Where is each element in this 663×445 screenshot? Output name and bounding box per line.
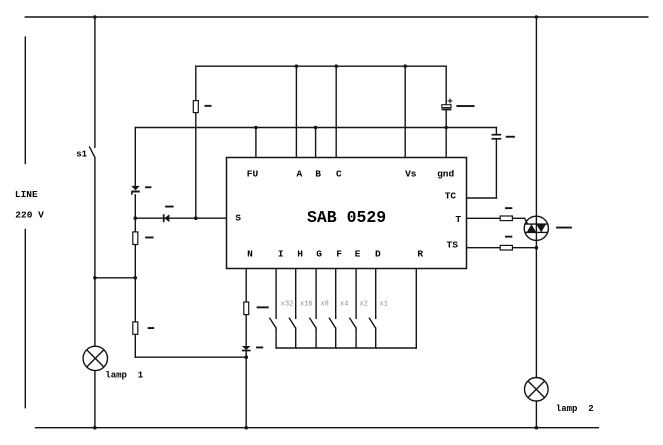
wire gnd column above capacitor C1 (445, 66, 447, 104)
svg-text:D: D (375, 249, 381, 260)
wire below switch x1 (375, 328, 377, 348)
wire below switch x16 (295, 328, 297, 348)
wire middle column x135 below resistor R2 (134, 245, 136, 322)
wire below switch x8 (315, 328, 317, 348)
triac Q1 circle (524, 216, 548, 240)
triac Q1 triangles (527, 224, 546, 232)
svg-text:lamp 1: lamp 1 (105, 371, 143, 381)
value dash of R2 (145, 237, 153, 239)
svg-text:C: C (336, 168, 342, 179)
wire R1 bottom down to S line (195, 113, 197, 219)
resistor R2 (133, 232, 138, 245)
wire N column between R4 and diode D3 (245, 315, 247, 346)
resistor R4 (244, 302, 249, 315)
node bottom rail left column (93, 426, 97, 430)
switch s1 blade (90, 147, 95, 157)
wire below switch x4 (335, 328, 337, 348)
pin G column (315, 269, 317, 319)
value dash of C2 (506, 136, 515, 138)
switch x8 blade (310, 318, 316, 328)
node line3 pin FU (254, 126, 258, 130)
pin I column (275, 269, 277, 319)
value dash of C1 (456, 105, 474, 107)
svg-text:G: G (316, 249, 322, 260)
wire switch collector rail (276, 347, 416, 349)
LINE 220V bracket line lower segment (24, 230, 26, 408)
wire branch left column to middle column (95, 277, 135, 279)
switch x4 blade (329, 318, 335, 328)
node line3 gnd column (444, 126, 448, 130)
svg-text:FU: FU (247, 168, 259, 179)
value dash of D1 (145, 186, 151, 188)
resistor R3 (133, 322, 138, 334)
wire R5 to triac gate (512, 217, 524, 219)
pin B stub (315, 128, 317, 158)
wire R1 top to rail2 (195, 66, 197, 100)
svg-text:s1: s1 (76, 149, 87, 159)
wire left vertical above switch s1 (94, 17, 96, 147)
diode D2 on S line (164, 214, 170, 222)
value dash of R6 (505, 236, 512, 238)
node rail2 pin Vs (403, 64, 407, 68)
switch x2 blade (350, 318, 356, 328)
wire N column below diode D3 to bottom rail (245, 351, 247, 428)
wire below switch x32 (275, 328, 277, 348)
value dash of D2 (165, 206, 174, 208)
wire below switch x2 (355, 328, 357, 348)
svg-text:TS: TS (447, 240, 459, 251)
node branch middle column (134, 276, 138, 280)
wire right vertical from top rail through triac to lamp 2 (535, 17, 537, 378)
LINE 220V bracket line upper segment (24, 37, 26, 163)
pin R column to collector rail (415, 269, 417, 349)
svg-text:H: H (297, 249, 303, 260)
node N column corner join (244, 355, 248, 359)
capacitor C1 electrolytic (442, 99, 453, 110)
svg-text:I: I (278, 249, 284, 260)
resistor R5 (500, 216, 512, 221)
value dash of R3 (148, 327, 155, 329)
svg-text:N: N (247, 249, 253, 260)
switch x1 blade (369, 318, 375, 328)
pin C stub (335, 66, 337, 157)
svg-text:A: A (297, 168, 303, 179)
node top rail left column (93, 15, 97, 19)
svg-text:B: B (315, 168, 321, 179)
wire left vertical below s1 to lamp 1 (94, 159, 96, 347)
pin FU stub (255, 128, 257, 158)
value dash of triac Q1 (556, 227, 572, 229)
wire C2 branch down from line3 (495, 128, 497, 135)
wire top supply rail (25, 16, 648, 18)
lamp 2 symbol (525, 378, 549, 402)
node rail2 pin C (334, 64, 338, 68)
node rail2 pin A (295, 64, 299, 68)
svg-text:x2: x2 (360, 300, 368, 308)
op-amp U1 IC SAB 0529 body (227, 158, 467, 269)
node TS right column (535, 246, 539, 250)
zener diode D1 (131, 186, 140, 195)
wire TS pin line to resistor R6 (467, 247, 501, 249)
svg-text:E: E (355, 249, 361, 260)
node line3 pin B (314, 126, 318, 130)
pin D column (375, 269, 377, 319)
node top rail right column (535, 15, 539, 19)
capacitor C2 (492, 135, 502, 139)
wire right vertical below lamp 2 (535, 401, 537, 428)
switch x32 blade (270, 318, 276, 328)
svg-text:lamp 2: lamp 2 (556, 404, 594, 414)
svg-text:gnd: gnd (437, 168, 454, 179)
wire corner to N pin column (135, 356, 246, 358)
svg-text:x8: x8 (320, 300, 328, 308)
svg-text:TC: TC (445, 191, 457, 202)
value dash of D3 (256, 347, 263, 349)
resistor R6 (500, 245, 512, 250)
diode D3 on N column (242, 346, 251, 351)
switch x16 blade (289, 318, 295, 328)
svg-text:220 V: 220 V (15, 209, 44, 220)
node bottom rail N column (244, 426, 248, 430)
svg-text:x32: x32 (281, 300, 294, 308)
wire S line from x135 to IC pin S (135, 217, 226, 219)
pin H column (295, 269, 297, 319)
wire middle column x135 below resistor R3 to corner (134, 334, 136, 357)
resistor R1 (193, 101, 198, 113)
wire line3 gnd rail above IC (135, 127, 496, 129)
pin Vs stub (404, 66, 406, 157)
node bottom rail right column (535, 426, 539, 430)
svg-text:SAB 0529: SAB 0529 (307, 208, 386, 227)
wire TC pin line (467, 197, 497, 199)
wire middle column x135 below zener to S node (134, 195, 136, 232)
wire C2 bottom down to TC level (495, 140, 497, 198)
node S line x135 (134, 216, 138, 220)
wire middle column x135 upper (134, 128, 136, 186)
wire left vertical below lamp 1 (94, 371, 96, 428)
svg-text:x4: x4 (340, 300, 348, 308)
svg-text:T: T (455, 214, 461, 225)
svg-text:LINE: LINE (15, 189, 38, 200)
wire R6 to right column (512, 247, 536, 249)
wire T pin line to resistor R5 (467, 217, 501, 219)
svg-text:R: R (417, 249, 423, 260)
value dash of R1 (205, 105, 212, 107)
wire rail2 top of IC pins (196, 65, 446, 67)
pin F column (335, 269, 337, 319)
wire gnd column below capacitor C1 to IC gnd pin (445, 110, 447, 158)
node branch left column (93, 276, 97, 280)
node S line R1 (194, 216, 198, 220)
value dash of R4 (257, 306, 269, 308)
svg-text:x16: x16 (300, 300, 313, 308)
lamp 1 symbol (83, 346, 107, 370)
pin A stub (295, 66, 297, 157)
svg-text:S: S (235, 212, 241, 223)
pin N column from IC to resistor R4 (245, 269, 247, 303)
svg-text:Vs: Vs (405, 168, 417, 179)
pin E column (355, 269, 357, 319)
svg-text:F: F (336, 249, 342, 260)
value dash of R5 (505, 207, 512, 209)
wire bottom supply rail (36, 427, 599, 429)
svg-text:x1: x1 (380, 300, 388, 308)
